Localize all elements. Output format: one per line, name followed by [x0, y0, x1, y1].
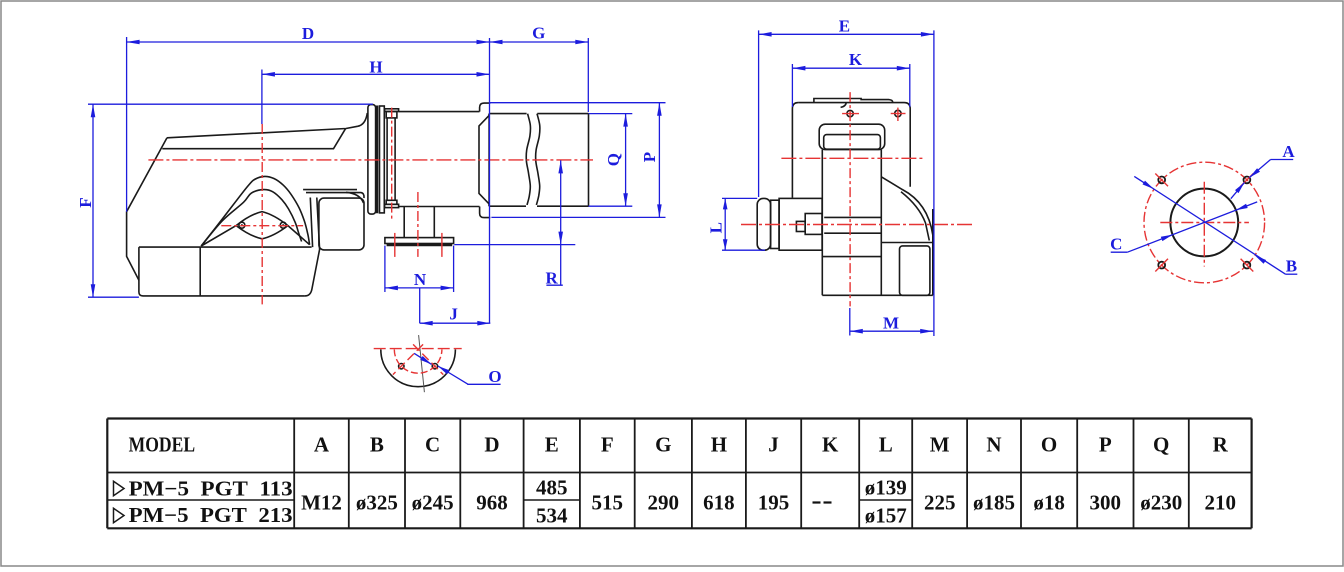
- svg-text:N: N: [986, 433, 1001, 457]
- svg-text:F: F: [601, 433, 614, 457]
- svg-text:ø245: ø245: [412, 491, 454, 515]
- svg-text:300: 300: [1090, 491, 1122, 515]
- svg-text:515: 515: [592, 491, 624, 515]
- svg-text:H: H: [711, 433, 727, 457]
- svg-text:B: B: [1286, 257, 1297, 276]
- svg-text:O: O: [488, 367, 501, 386]
- svg-text:B: B: [370, 433, 384, 457]
- svg-text:H: H: [369, 58, 382, 77]
- svg-text:485: 485: [536, 476, 568, 500]
- svg-text:ø230: ø230: [1140, 491, 1182, 515]
- svg-text:PM−5 PGT 213: PM−5 PGT 213: [129, 503, 293, 527]
- svg-text:534: 534: [536, 503, 568, 527]
- svg-text:N: N: [414, 270, 427, 289]
- svg-text:D: D: [484, 433, 499, 457]
- svg-text:PM−5 PGT 113: PM−5 PGT 113: [129, 476, 293, 500]
- svg-text:L: L: [879, 433, 893, 457]
- svg-text:L: L: [707, 222, 726, 233]
- svg-text:E: E: [545, 433, 559, 457]
- svg-text:ø18: ø18: [1033, 491, 1065, 515]
- svg-text:P: P: [1099, 433, 1112, 457]
- svg-text:A: A: [314, 433, 330, 457]
- svg-text:C: C: [1110, 234, 1122, 253]
- svg-text:M12: M12: [301, 491, 342, 515]
- svg-text:618: 618: [703, 491, 735, 515]
- svg-text:210: 210: [1204, 491, 1236, 515]
- svg-text:290: 290: [648, 491, 680, 515]
- svg-text:J: J: [449, 305, 458, 324]
- svg-text:D: D: [302, 24, 314, 43]
- svg-text:MODEL: MODEL: [129, 433, 196, 457]
- svg-text:J: J: [768, 433, 779, 457]
- svg-text:O: O: [1041, 433, 1057, 457]
- svg-text:G: G: [532, 23, 545, 42]
- svg-text:ø157: ø157: [865, 503, 907, 527]
- svg-text:G: G: [655, 433, 671, 457]
- svg-text:ø185: ø185: [973, 491, 1015, 515]
- svg-text:K: K: [849, 50, 863, 69]
- svg-text:Q: Q: [604, 153, 623, 166]
- svg-text:C: C: [425, 433, 440, 457]
- svg-text:M: M: [883, 313, 899, 332]
- svg-text:195: 195: [758, 491, 790, 515]
- svg-text:P: P: [640, 152, 659, 162]
- svg-text:E: E: [839, 16, 850, 35]
- svg-text:Q: Q: [1153, 433, 1169, 457]
- svg-text:K: K: [822, 433, 839, 457]
- svg-text:225: 225: [924, 491, 956, 515]
- svg-text:A: A: [1282, 142, 1295, 161]
- svg-text:ø139: ø139: [865, 476, 907, 500]
- svg-text:R: R: [1213, 433, 1229, 457]
- svg-text:F: F: [76, 197, 95, 207]
- svg-text:968: 968: [476, 491, 508, 515]
- svg-text:ø325: ø325: [356, 491, 398, 515]
- svg-text:M: M: [930, 433, 950, 457]
